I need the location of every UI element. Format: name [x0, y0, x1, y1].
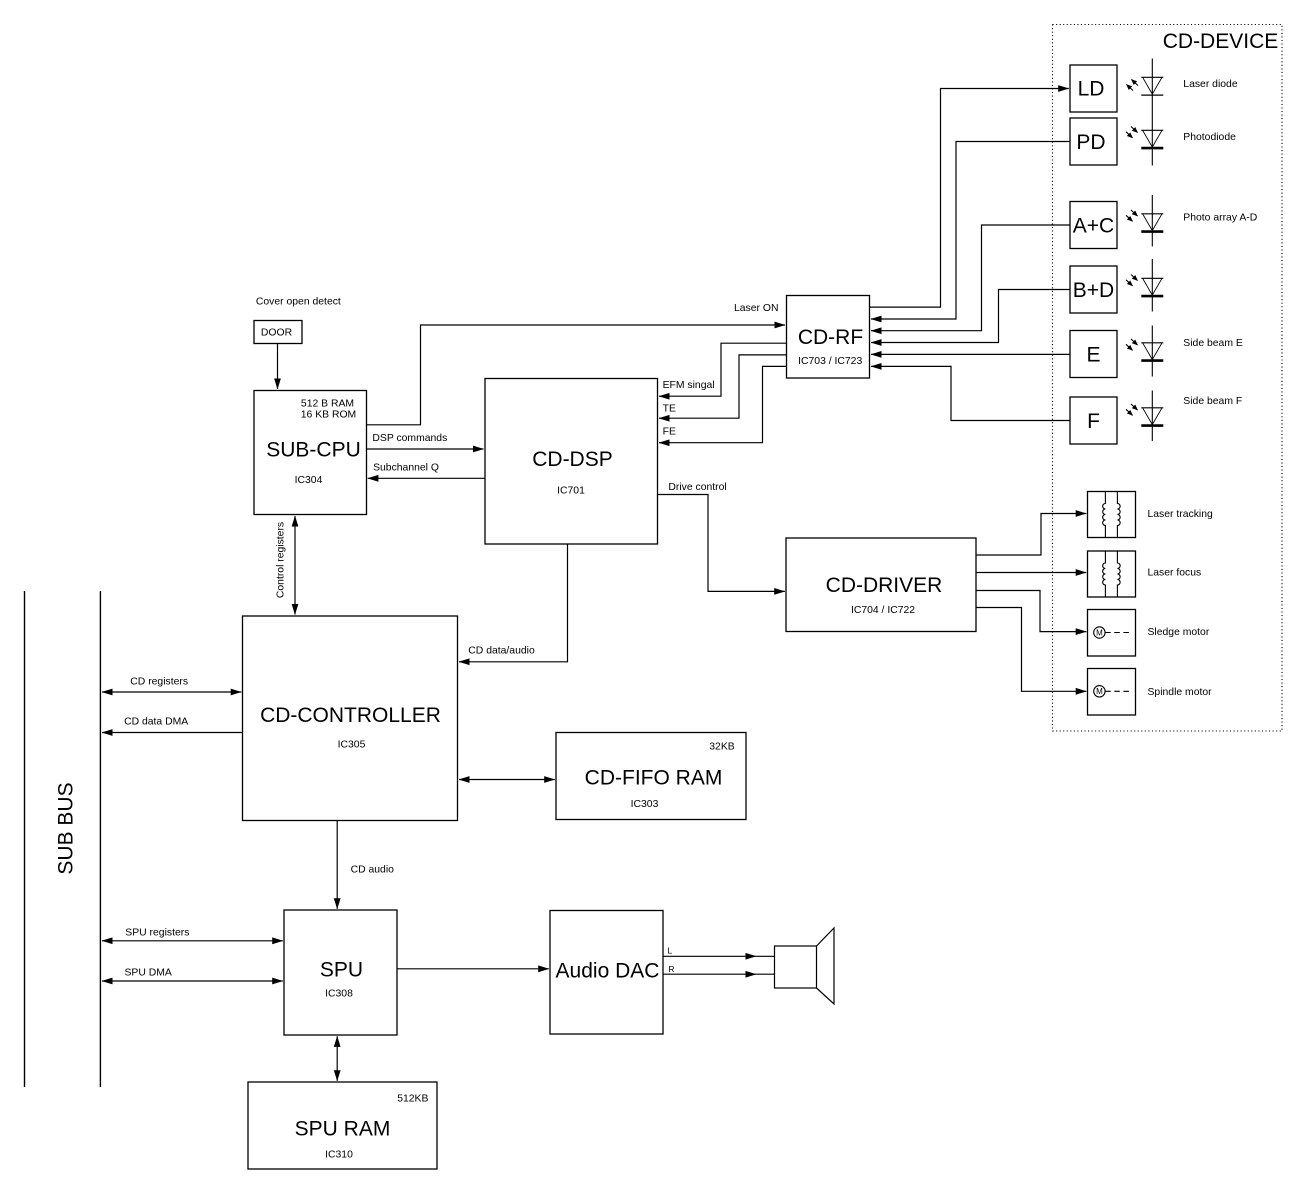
svg-text:IC303: IC303	[631, 799, 659, 810]
svg-text:32KB: 32KB	[709, 741, 734, 752]
diode wire E	[1151, 326, 1153, 377]
wire B+D to CD-RF	[871, 290, 1070, 343]
wire audio R tail	[756, 973, 775, 975]
SPU RAM IC310	[248, 1082, 437, 1169]
block LD	[1070, 65, 1117, 112]
wire driver to sledge	[976, 591, 1086, 632]
CD-DRIVER IC704/IC722	[786, 538, 976, 632]
svg-text:CD data/audio: CD data/audio	[468, 646, 535, 657]
wire DOOR to SUB-CPU	[277, 344, 279, 389]
svg-text:M: M	[1096, 687, 1103, 696]
photodiode symbol F	[1126, 404, 1163, 426]
svg-text:DSP commands: DSP commands	[372, 433, 447, 444]
wire CD data/audio	[459, 544, 568, 662]
wire CD registers	[102, 691, 241, 693]
svg-text:CD audio: CD audio	[351, 864, 395, 875]
svg-text:SUB BUS: SUB BUS	[55, 782, 78, 874]
wire FE	[659, 366, 787, 442]
CD-DSP IC701	[485, 379, 658, 545]
tracking coil left	[1103, 492, 1106, 538]
svg-text:Side beam F: Side beam F	[1183, 396, 1242, 407]
svg-text:SPU RAM: SPU RAM	[295, 1117, 391, 1140]
svg-text:A+C: A+C	[1073, 214, 1114, 237]
svg-text:L: L	[668, 946, 673, 956]
wire EFM signal	[659, 343, 787, 396]
svg-text:CD registers: CD registers	[130, 676, 188, 687]
svg-text:Drive control: Drive control	[668, 482, 726, 493]
block PD	[1070, 118, 1117, 165]
spindle motor block	[1088, 669, 1136, 716]
svg-text:TE: TE	[663, 404, 676, 415]
svg-text:FE: FE	[663, 427, 676, 438]
svg-text:Photo array A-D: Photo array A-D	[1183, 212, 1257, 223]
block F	[1070, 397, 1117, 444]
svg-text:512KB: 512KB	[397, 1093, 428, 1104]
wire CD-FIFO link	[459, 779, 555, 781]
svg-text:Laser ON: Laser ON	[734, 303, 778, 314]
wire CD audio	[336, 821, 338, 909]
svg-text:M: M	[1096, 628, 1103, 637]
diode wire A+C	[1151, 195, 1153, 247]
svg-text:IC305: IC305	[338, 739, 366, 750]
laser tracking actuator	[1088, 492, 1136, 538]
svg-text:Audio DAC: Audio DAC	[556, 959, 660, 982]
wire driver to tracking	[976, 514, 1086, 556]
svg-text:CD-DEVICE: CD-DEVICE	[1163, 30, 1279, 53]
laser diode symbol	[1127, 77, 1164, 95]
diode wire B+D	[1151, 259, 1153, 312]
svg-text:IC703 / IC723: IC703 / IC723	[798, 356, 862, 367]
speaker symbol	[775, 928, 835, 1004]
svg-text:Laser focus: Laser focus	[1148, 568, 1202, 579]
svg-text:EFM singal: EFM singal	[663, 380, 715, 391]
wire Control registers	[294, 516, 296, 615]
svg-text:CD-RF: CD-RF	[798, 326, 863, 349]
CD-RF IC703/IC723	[787, 296, 870, 379]
svg-text:R: R	[668, 964, 674, 974]
svg-text:Cover open detect: Cover open detect	[256, 296, 341, 307]
SUB-CPU IC304	[254, 391, 367, 515]
CD-DEVICE enclosure	[1053, 25, 1283, 732]
diode wire F	[1151, 391, 1153, 442]
svg-text:CD-CONTROLLER: CD-CONTROLLER	[260, 704, 441, 727]
svg-text:SUB-CPU: SUB-CPU	[266, 438, 361, 461]
wire Subchannel Q	[368, 477, 485, 479]
wire SPU to Audio DAC	[397, 968, 549, 970]
wire PD to CD-RF	[871, 142, 1070, 320]
svg-text:SPU DMA: SPU DMA	[125, 968, 172, 979]
svg-text:E: E	[1086, 343, 1100, 366]
tracking coil right	[1117, 492, 1120, 538]
svg-text:IC701: IC701	[557, 485, 585, 496]
svg-text:B+D: B+D	[1073, 279, 1114, 302]
CD-FIFO RAM IC303	[556, 733, 746, 820]
photodiode symbol E	[1126, 339, 1163, 361]
SPU IC308	[284, 910, 397, 1035]
SUB BUS rail 2	[99, 591, 101, 1087]
svg-text:DOOR: DOOR	[261, 328, 293, 339]
laser focus actuator	[1088, 551, 1136, 597]
wire driver to spindle	[976, 608, 1086, 692]
svg-text:Subchannel Q: Subchannel Q	[373, 462, 439, 473]
svg-text:CD-DRIVER: CD-DRIVER	[826, 574, 943, 597]
svg-text:Laser diode: Laser diode	[1183, 79, 1238, 90]
spindle motor symbol M	[1094, 686, 1130, 697]
svg-text:Laser tracking: Laser tracking	[1148, 509, 1213, 520]
svg-text:512 B RAM: 512 B RAM	[301, 399, 354, 410]
wire audio L tail	[756, 955, 775, 957]
svg-text:F: F	[1087, 410, 1100, 433]
svg-text:16 KB ROM: 16 KB ROM	[301, 410, 356, 421]
wire CD data DMA	[102, 732, 243, 734]
photodiode symbol A+C	[1126, 210, 1163, 232]
wire TE	[659, 355, 787, 418]
block A+C	[1070, 202, 1117, 249]
block E	[1070, 331, 1117, 378]
DOOR switch	[254, 321, 302, 344]
SUB BUS rail 1	[24, 591, 26, 1087]
sledge motor block	[1088, 610, 1136, 657]
wire A+C to CD-RF	[871, 225, 1070, 331]
svg-text:Sledge motor: Sledge motor	[1148, 627, 1210, 638]
svg-text:IC310: IC310	[325, 1149, 353, 1160]
svg-text:IC308: IC308	[325, 988, 353, 999]
CD-CONTROLLER IC305	[243, 616, 458, 821]
diode chain wire LD/PD	[1151, 59, 1153, 166]
Audio DAC block	[550, 911, 663, 1035]
wire E to CD-RF	[871, 353, 1070, 355]
svg-text:SPU registers: SPU registers	[125, 927, 189, 938]
wire SPU DMA	[102, 980, 283, 982]
wire Drive control	[658, 495, 785, 592]
wire Laser ON	[367, 325, 786, 425]
wire CD-RF to LD	[870, 89, 1069, 308]
svg-text:IC704 / IC722: IC704 / IC722	[851, 605, 915, 616]
svg-text:Photodiode: Photodiode	[1183, 132, 1236, 143]
focus coil right	[1117, 552, 1120, 598]
svg-text:SPU: SPU	[320, 958, 363, 981]
svg-text:Spindle motor: Spindle motor	[1148, 687, 1213, 698]
focus coil left	[1103, 552, 1106, 598]
photodiode symbol B+D	[1126, 275, 1163, 297]
block B+D	[1070, 266, 1117, 313]
wire SPU registers	[102, 940, 283, 942]
svg-text:CD-FIFO RAM: CD-FIFO RAM	[585, 766, 723, 789]
svg-text:IC304: IC304	[295, 475, 323, 486]
wire DSP commands	[367, 448, 484, 450]
wire driver to focus	[976, 572, 1086, 574]
wire audio L	[663, 955, 756, 957]
wire SPU to SPU RAM	[336, 1036, 338, 1081]
svg-text:Side beam E: Side beam E	[1183, 338, 1243, 349]
wire F to CD-RF	[871, 366, 1070, 420]
wire audio R	[663, 973, 756, 975]
svg-text:PD: PD	[1076, 131, 1105, 154]
svg-text:CD data DMA: CD data DMA	[124, 716, 188, 727]
svg-text:CD-DSP: CD-DSP	[532, 448, 613, 471]
sledge motor symbol M	[1094, 627, 1130, 638]
photodiode symbol	[1126, 127, 1163, 149]
svg-text:Control registers: Control registers	[276, 522, 287, 598]
svg-text:LD: LD	[1078, 78, 1105, 101]
